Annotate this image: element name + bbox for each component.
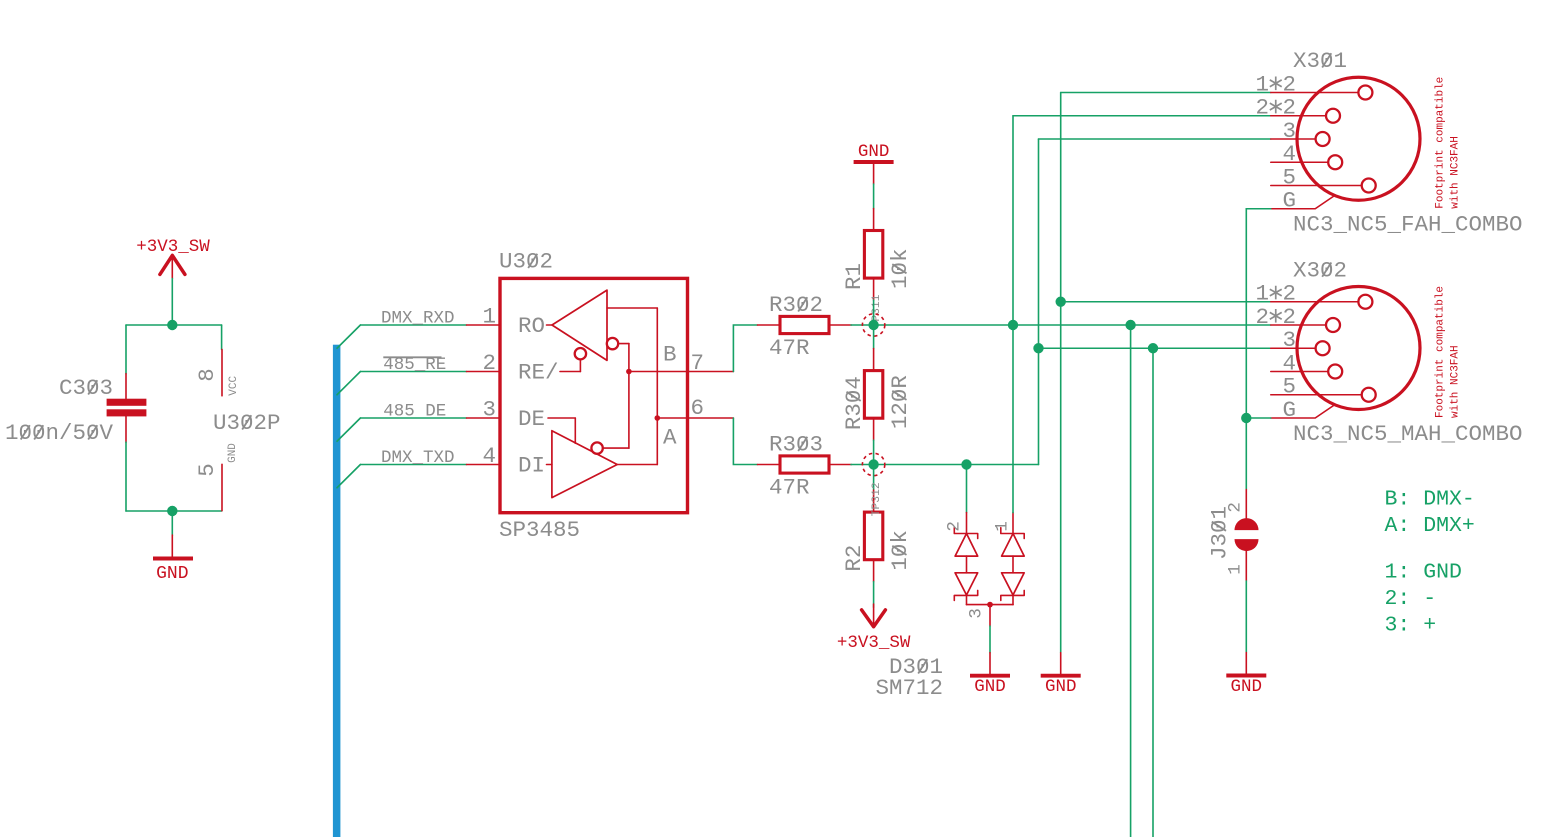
svg-text:1: 1 xyxy=(482,304,496,330)
wire xyxy=(221,325,223,349)
pin 7 B line inside xyxy=(629,371,688,373)
svg-text:R303: R303 xyxy=(769,432,823,458)
svg-text:X302: X302 xyxy=(1293,257,1347,283)
svg-text:R1: R1 xyxy=(841,263,867,290)
connector X302 XLR2 xyxy=(1255,257,1522,447)
wire xyxy=(873,582,875,608)
svg-text:DMX_TXD: DMX_TXD xyxy=(381,448,455,468)
svg-text:R2: R2 xyxy=(841,545,867,572)
svg-text:47R: 47R xyxy=(769,475,810,501)
node GND-bot xyxy=(167,506,177,516)
bus entry xyxy=(337,325,360,348)
svg-text:GND: GND xyxy=(1231,677,1263,697)
pin 3 stem xyxy=(989,605,991,626)
pin 3 label xyxy=(967,608,987,619)
wire xyxy=(125,442,127,511)
ground xyxy=(1226,653,1266,698)
svg-text:6: 6 xyxy=(691,395,705,421)
svg-text:Footprint compatible: Footprint compatible xyxy=(1435,286,1447,418)
wire net A lower xyxy=(851,464,1039,466)
connector X301 XLR1 xyxy=(1255,48,1522,238)
ground (top, above R1) xyxy=(854,142,894,184)
diode stack D301 pin 2 xyxy=(945,513,978,605)
svg-text:DI: DI xyxy=(518,453,545,479)
test point label TP312 xyxy=(871,482,883,516)
node 3 xyxy=(987,602,993,608)
test point label TP311 xyxy=(871,294,883,328)
driver triangle xyxy=(552,431,617,498)
wire xyxy=(126,324,222,326)
node A-1 xyxy=(1033,343,1043,353)
resistor R1 xyxy=(841,209,913,301)
svg-text:G: G xyxy=(1282,397,1296,423)
resistor R302 xyxy=(758,292,852,361)
svg-text:NC3_NC5_MAH_COMBO: NC3_NC5_MAH_COMBO xyxy=(1293,421,1523,447)
wire xyxy=(873,440,875,464)
svg-text:A: A xyxy=(663,425,677,451)
power flag +3V3_SW xyxy=(136,237,210,279)
svg-text:SM712: SM712 xyxy=(875,675,943,701)
wire xyxy=(360,324,466,326)
svg-text:GND: GND xyxy=(1045,677,1077,697)
svg-text:X301: X301 xyxy=(1293,48,1347,74)
svg-text:GND: GND xyxy=(974,677,1006,697)
wire xyxy=(966,465,968,513)
label U302P xyxy=(213,410,281,436)
svg-text:GND: GND xyxy=(858,142,890,162)
test point TP312 marker xyxy=(862,453,884,475)
wire X301 2*2 row xyxy=(1013,115,1271,117)
svg-text:RE/: RE/ xyxy=(518,360,559,386)
wire G X301 xyxy=(1246,209,1271,490)
svg-text:GND: GND xyxy=(156,564,188,584)
svg-text:VCC: VCC xyxy=(228,376,240,396)
svg-text:DE: DE xyxy=(518,406,545,432)
svg-text:with NC3FAH: with NC3FAH xyxy=(1450,136,1462,209)
wire xyxy=(873,184,875,209)
wire net A down off-sheet xyxy=(1152,348,1154,837)
svg-text:8: 8 xyxy=(194,368,220,382)
wire X301 pin3 to net A xyxy=(1038,139,1040,465)
svg-text:GND: GND xyxy=(227,443,239,463)
svg-text:1: GND: 1: GND xyxy=(1385,561,1462,585)
svg-text:3: +: 3: + xyxy=(1385,614,1437,638)
svg-text:U302: U302 xyxy=(499,249,553,275)
resistor R303 xyxy=(758,432,852,501)
pin 3 DE xyxy=(467,397,546,433)
svg-text:1: 1 xyxy=(992,521,1012,532)
node G xyxy=(1241,413,1251,423)
bus xyxy=(333,345,341,837)
legend net names xyxy=(1385,488,1475,638)
svg-text:Footprint compatible: Footprint compatible xyxy=(1435,77,1447,209)
svg-text:B: DMX-: B: DMX- xyxy=(1385,488,1475,512)
svg-text:120R: 120R xyxy=(887,375,913,429)
wire xyxy=(1245,581,1247,653)
svg-text:3: 3 xyxy=(1282,327,1296,353)
svg-text:5: 5 xyxy=(1282,164,1296,190)
svg-text:J301: J301 xyxy=(1207,506,1233,560)
node D301-2 xyxy=(961,459,971,469)
wire net A row xyxy=(1039,347,1271,349)
svg-text:TP312: TP312 xyxy=(871,482,883,516)
driver output bubble xyxy=(591,442,629,453)
op-amp U302 SP3485 body xyxy=(500,278,688,512)
ground xyxy=(153,535,193,584)
svg-text:4: 4 xyxy=(482,443,496,469)
jumper J301 xyxy=(1207,490,1259,582)
wire xyxy=(125,325,127,374)
wire net B xyxy=(851,324,1271,326)
ground xyxy=(970,653,1010,698)
pin 1 RO xyxy=(467,304,546,340)
bus entry xyxy=(337,465,360,488)
RE enable path xyxy=(560,348,586,372)
wire xyxy=(171,279,173,325)
label D301 xyxy=(889,654,943,680)
svg-text:5: 5 xyxy=(1282,374,1296,400)
B internal vertical xyxy=(628,344,630,449)
svg-text:1: 1 xyxy=(1226,564,1246,575)
node VCC-top xyxy=(167,320,177,330)
node B internal xyxy=(626,369,632,375)
wire X301 3 row xyxy=(1039,138,1271,140)
test point TP311 marker xyxy=(862,314,884,336)
bus entry xyxy=(337,418,360,441)
pin 7 xyxy=(688,350,734,376)
inverting input bubble xyxy=(607,338,629,349)
wire DI to triangle xyxy=(547,464,552,466)
svg-text:7: 7 xyxy=(691,350,705,376)
wire xyxy=(989,626,991,653)
wire xyxy=(360,417,466,419)
svg-text:NC3_NC5_FAH_COMBO: NC3_NC5_FAH_COMBO xyxy=(1293,212,1523,238)
svg-text:4: 4 xyxy=(1282,350,1296,376)
power unit U302P pin 8 VCC xyxy=(194,349,240,395)
svg-text:G: G xyxy=(1282,188,1296,214)
wire xyxy=(733,418,757,465)
wire xyxy=(360,464,466,466)
node TP311 xyxy=(868,320,878,330)
pin 6 A line inside xyxy=(657,417,687,419)
receiver input lines xyxy=(607,308,657,465)
node B-2 xyxy=(1125,320,1135,330)
wire X302 1*2 row xyxy=(1061,301,1271,303)
svg-text:3: 3 xyxy=(967,608,987,619)
svg-text:47R: 47R xyxy=(769,335,810,361)
label U302 xyxy=(499,249,553,275)
wire xyxy=(873,465,875,490)
svg-text:4: 4 xyxy=(1282,141,1296,167)
wire xyxy=(733,325,757,372)
svg-text:2: 2 xyxy=(482,350,496,376)
svg-text:100n/50V: 100n/50V xyxy=(5,420,114,446)
wire G X302 xyxy=(1246,417,1271,419)
wire RO to triangle xyxy=(547,324,553,326)
receiver triangle xyxy=(552,290,607,360)
ground xyxy=(1041,653,1081,698)
wire net B down off-sheet xyxy=(1130,325,1132,837)
svg-text:+3V3_SW: +3V3_SW xyxy=(837,633,911,653)
svg-text:2: 2 xyxy=(1226,502,1246,513)
wire xyxy=(126,510,222,512)
capacitor C303 xyxy=(5,374,146,446)
pin 6 xyxy=(688,395,734,421)
svg-text:485_RE: 485_RE xyxy=(383,355,446,375)
pin 4 DI xyxy=(467,443,546,479)
node B-1 xyxy=(1008,320,1018,330)
node A-2 xyxy=(1148,343,1158,353)
svg-text:5: 5 xyxy=(194,463,220,477)
wire xyxy=(360,371,466,373)
node TP312 xyxy=(868,459,878,469)
DE enable path xyxy=(548,418,575,443)
svg-text:485 DE: 485 DE xyxy=(383,402,446,422)
node A internal xyxy=(655,415,661,421)
svg-text:DMX_RXD: DMX_RXD xyxy=(381,309,455,329)
svg-text:B: B xyxy=(663,342,677,368)
svg-text:with NC3FAH: with NC3FAH xyxy=(1450,345,1462,418)
svg-text:R304: R304 xyxy=(841,376,867,430)
svg-text:R302: R302 xyxy=(769,292,823,318)
pin 2 RE/ xyxy=(467,350,559,386)
svg-text:RO: RO xyxy=(518,313,545,339)
resistor R304 xyxy=(841,349,913,441)
D301 bottom bar xyxy=(967,604,1014,606)
svg-text:A: DMX+: A: DMX+ xyxy=(1385,514,1475,538)
wire xyxy=(873,325,875,349)
svg-text:2: -: 2: - xyxy=(1385,587,1437,611)
svg-text:2: 2 xyxy=(945,521,965,532)
wire xyxy=(171,511,173,535)
svg-text:SP3485: SP3485 xyxy=(499,517,580,543)
wire X301 1*2 row xyxy=(1061,92,1271,94)
diode stack D301 pin 1 xyxy=(992,513,1024,605)
resistor R2 xyxy=(841,490,913,582)
node SH xyxy=(1056,297,1066,307)
svg-text:3: 3 xyxy=(1282,118,1296,144)
svg-text:C303: C303 xyxy=(59,375,113,401)
wire shield: X301 pin1*2 down to GND xyxy=(1060,93,1062,653)
wire xyxy=(873,300,875,325)
wire X301 pin2*2 to net B / D301 pin1 xyxy=(1012,116,1014,513)
power flag +3V3_SW (down) xyxy=(837,604,911,653)
power unit U302P pin 5 GND xyxy=(194,443,239,511)
svg-text:3: 3 xyxy=(482,397,496,423)
bus entry xyxy=(337,372,360,395)
